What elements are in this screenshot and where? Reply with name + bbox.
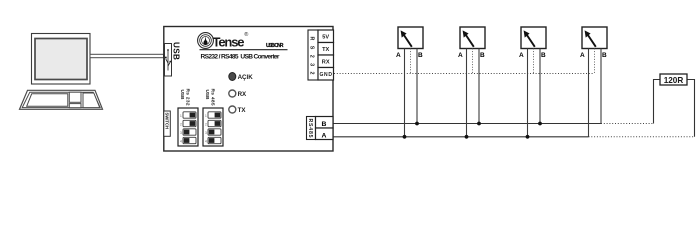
svg-text:Tense: Tense: [213, 35, 245, 50]
svg-text:3: 3: [180, 131, 182, 135]
junction M2-A: [465, 135, 469, 139]
svg-text:USB: USB: [179, 90, 185, 101]
svg-text:RS485: RS485: [307, 119, 313, 138]
svg-text:USB: USB: [171, 42, 180, 60]
LED TX: [229, 106, 236, 113]
svg-text:1: 1: [180, 114, 182, 118]
Tense logo: [198, 31, 249, 50]
svg-text:3: 3: [205, 131, 207, 135]
svg-text:4: 4: [205, 140, 207, 144]
wire M3-A: [527, 49, 529, 137]
terminal TX: [318, 43, 334, 56]
terminal RX: [318, 55, 334, 68]
wire M3-B: [539, 49, 541, 124]
resistor 120R: [660, 74, 687, 85]
USB cable wire from PC to converter: [90, 54, 164, 57]
junction M1-A: [403, 135, 407, 139]
svg-text:B: B: [322, 121, 327, 128]
svg-text:RS232 / RS485 USB Converter: RS232 / RS485 USB Converter: [201, 53, 280, 60]
svg-text:B: B: [541, 52, 546, 59]
svg-text:B: B: [480, 52, 485, 59]
svg-text:USB: USB: [204, 90, 210, 101]
svg-text:RX: RX: [322, 59, 330, 65]
svg-text:A: A: [322, 133, 327, 140]
junction M3-B: [538, 122, 542, 126]
GND shield wire (dotted): [334, 73, 594, 75]
RS232 terminal strip: [308, 30, 318, 80]
terminal A: [316, 128, 334, 140]
svg-text:1: 1: [205, 114, 207, 118]
svg-text:5V: 5V: [322, 34, 329, 40]
wire M4-B: [600, 49, 602, 124]
terminal 5V: [318, 30, 334, 43]
svg-text:2: 2: [180, 123, 182, 127]
svg-text:Rs 485: Rs 485: [209, 89, 215, 106]
wire M1 shield stub (dotted): [410, 49, 412, 74]
computer PC monitor: [32, 34, 91, 85]
svg-text:B: B: [418, 52, 423, 59]
wire M3 shield stub (dotted): [533, 49, 535, 74]
terminal B: [316, 117, 334, 129]
terminal GND: [318, 68, 334, 81]
LED RX: [229, 90, 236, 97]
DIP switch S2: [203, 108, 223, 146]
logo underline: [200, 49, 288, 51]
wire M1-A: [404, 49, 406, 137]
svg-text:SWITCH: SWITCH: [164, 113, 169, 130]
DIP switch S1: [178, 108, 198, 146]
svg-text:®: ®: [244, 31, 248, 38]
svg-text:A: A: [519, 52, 524, 59]
slave device M2: [458, 27, 485, 59]
svg-text:2: 2: [205, 123, 207, 127]
wire B bus (solid): [334, 123, 602, 125]
USB port connector: [165, 44, 172, 77]
resistor 120R leads: [654, 80, 661, 124]
computer PC keyboard: [20, 90, 103, 109]
wire B termination (dotted): [601, 123, 654, 125]
svg-text:4: 4: [180, 140, 182, 144]
svg-text:A: A: [458, 52, 463, 59]
SWITCH label box: [164, 111, 171, 136]
junction M3-A: [526, 135, 530, 139]
svg-text:A: A: [580, 52, 585, 59]
junction M2-B: [477, 122, 481, 126]
wire M2-B: [478, 49, 480, 124]
svg-text:Rs 232: Rs 232: [184, 89, 190, 106]
svg-text:GND: GND: [319, 72, 332, 78]
slave device M1: [396, 27, 423, 59]
wire M2 shield stub (dotted): [472, 49, 474, 74]
wire A termination (dotted): [589, 136, 695, 138]
wire M2-A: [466, 49, 468, 137]
wire M4-A: [588, 49, 590, 137]
svg-text:B: B: [602, 52, 607, 59]
slave device M3: [519, 27, 546, 59]
wire M4 shield stub (dotted): [594, 49, 596, 74]
wire M1-B: [416, 49, 418, 124]
svg-text:TX: TX: [322, 47, 329, 53]
svg-text:A: A: [396, 52, 401, 59]
LED ACIK (power): [229, 73, 236, 81]
wire A bus (solid): [334, 136, 589, 138]
svg-text:RX: RX: [238, 91, 247, 98]
svg-text:AÇIK: AÇIK: [238, 74, 254, 81]
RS485 terminal strip: [307, 117, 316, 140]
svg-text:TX: TX: [238, 107, 247, 114]
svg-text:120R: 120R: [664, 76, 684, 85]
svg-text:USB-CNR: USB-CNR: [266, 43, 284, 49]
converter U1 (Tense USB-CNR) enclosure: [164, 27, 333, 152]
junction M1-B: [415, 122, 419, 126]
slave device M4: [580, 27, 607, 59]
